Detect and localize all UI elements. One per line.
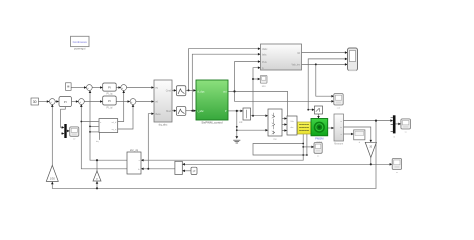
wire scope1 in2 from below <box>308 59 347 110</box>
converter bridge block <box>268 109 282 141</box>
wire dq out1 up to sum123 <box>118 91 124 121</box>
svg-text:Vabc: Vabc <box>262 48 268 51</box>
manual switch S2 <box>315 106 323 114</box>
wire S2 down into motor <box>318 114 320 118</box>
subsystem control measurements gray <box>261 44 302 70</box>
scope1 tall <box>348 48 358 71</box>
sum circle row1 b <box>121 85 127 91</box>
wire branch filter1 up to ctrlmeas in1 <box>189 49 260 91</box>
svg-text:30: 30 <box>33 100 37 104</box>
gain triangle 2 down <box>365 142 376 157</box>
wire branch down to scope2 in1 <box>316 64 333 96</box>
wire L2 right segment B5 to abcdq <box>142 168 175 170</box>
wire row1 PI1 to sum2 <box>116 87 120 89</box>
svg-text:d_dpc: d_dpc <box>198 89 206 93</box>
wire converter out to meas3 c <box>282 130 286 132</box>
gain triangle 3 up small <box>93 171 101 181</box>
sum circle row1 a <box>86 85 92 91</box>
wire dc branch to converter in3 <box>237 129 267 131</box>
small subsystem B5 <box>175 161 182 174</box>
wire row2 sum81 to B3 <box>84 101 102 103</box>
wire S1 out to converter in1 <box>251 115 268 117</box>
sum circle row2 b <box>79 99 85 105</box>
svg-text:Puls: Puls <box>262 61 267 64</box>
svg-text:PI_id: PI_id <box>106 105 112 109</box>
dq transform block left <box>96 119 118 144</box>
wire dq out2 up to sum133 <box>118 105 133 129</box>
svg-text:SixPWM_control: SixPWM_control <box>201 121 223 125</box>
svg-text:P: P <box>225 109 227 113</box>
wire gain3 stub bottom <box>96 182 98 189</box>
svg-text:abc_dq: abc_dq <box>130 149 139 152</box>
svg-text:pff: pff <box>193 170 196 173</box>
scope3 <box>314 143 322 158</box>
svg-text:+: + <box>131 100 133 104</box>
svg-text:PI: PI <box>108 99 111 103</box>
wire R1 to B5 <box>183 170 191 172</box>
wire dq bottom stub <box>99 133 101 140</box>
wire L1 left segment up to sum89 <box>90 91 127 160</box>
wire dc rect loop <box>253 144 307 156</box>
wire motor out to meas2 <box>328 127 334 129</box>
wire L3 speed line to scope4 <box>183 163 391 165</box>
wire dq in3 stub <box>90 131 98 133</box>
wire green out1 branch down to scope2 in2 <box>235 91 334 101</box>
wire dq in2 stub <box>90 125 98 127</box>
wire green out1 branch up to ctrlmeas in3 <box>235 62 260 92</box>
svg-text:PMSM: PMSM <box>315 136 324 140</box>
wire iTurk out2 to filter2 <box>172 110 176 112</box>
svg-text:1/30: 1/30 <box>50 177 56 181</box>
svg-text:Measure: Measure <box>334 142 344 145</box>
wire mux left feed <box>61 107 66 128</box>
scope5 <box>401 119 411 133</box>
wire vertical x253 from ctrlmeas in4 down <box>253 68 260 116</box>
display block D1 <box>354 130 365 144</box>
filter block 1 <box>176 86 185 96</box>
wire green out2 to S1 <box>228 110 242 112</box>
wire gain1 out up to sum52 <box>51 105 53 165</box>
junction dots <box>188 89 190 91</box>
wire bottom feedback line L4 <box>52 187 376 189</box>
sum circle row2 a <box>49 99 55 105</box>
wire row2 B3 to sum133 <box>116 101 129 103</box>
svg-text:Iabc: Iabc <box>262 53 267 56</box>
svg-text:+: + <box>87 86 89 90</box>
wire branch filter2 up to ctrlmeas in2 <box>192 54 259 110</box>
PMSM motor block green <box>311 119 328 144</box>
svg-text:powergui: powergui <box>74 47 86 51</box>
svg-text:PI_iq: PI_iq <box>106 92 112 96</box>
wire row1 sum2 to iTurk in1 <box>127 87 154 89</box>
wire stub to switch S2 <box>308 109 314 111</box>
svg-text:+: + <box>122 86 124 90</box>
arrowhead down (dc branch) <box>235 136 238 139</box>
svg-text:PI: PI <box>108 86 111 90</box>
svg-text:Vab_inv: Vab_inv <box>292 64 301 67</box>
wire dq in1 stub <box>81 121 98 123</box>
bus bar left mux <box>64 124 66 138</box>
wire mux left feed2 <box>62 133 64 135</box>
svg-text:m: m <box>393 137 395 139</box>
wire converter out to meas3 a <box>282 118 286 120</box>
subsystem iTurk <box>154 80 172 126</box>
small rounded block R1 <box>191 167 197 174</box>
wire L2 theta tap to iTurk in3 <box>148 114 153 169</box>
wire bus bar to scope5 <box>396 123 401 125</box>
wire gain1 stub bottom <box>51 182 53 188</box>
wire row2 sum to PI2 <box>55 101 58 103</box>
wire stub to scope3 <box>303 146 313 148</box>
wire ctrlmeas out2 to scope1 in3 <box>302 63 347 65</box>
wire row1 const to sum <box>71 87 86 89</box>
powergui block <box>71 36 90 50</box>
wire meas2 out3 to display D1 <box>344 133 353 135</box>
wire yellow bottom x303 down to L1 <box>302 134 304 160</box>
svg-text:i_abc: i_abc <box>197 109 204 113</box>
PI controller block row2 speed <box>59 97 72 107</box>
sum circle row2 c <box>130 99 136 105</box>
PI controller block row1 <box>103 83 117 96</box>
scope T1 small <box>260 75 267 88</box>
wire speed down right <box>375 121 377 189</box>
ground symbol dc minus <box>234 140 240 143</box>
wire ctrlmeas out1 to scope1 in1 <box>302 52 347 54</box>
small subsystem S1 <box>243 108 251 120</box>
constant block iq ref <box>66 83 72 91</box>
wire row2 PI2 to sum81 <box>72 101 78 103</box>
svg-text:out: out <box>223 89 227 93</box>
wire mux to scope6 <box>67 130 69 132</box>
svg-text:vd_d: vd_d <box>111 122 117 124</box>
wire row2 const30 to sum <box>39 101 49 103</box>
svg-text:+: + <box>50 100 52 104</box>
wire stub to scope T1 <box>253 78 260 80</box>
svg-text:dq_abc: dq_abc <box>159 122 168 126</box>
gain triangle 1 up (1/30) <box>46 165 58 181</box>
three phase VI measurement block <box>287 116 297 135</box>
constant block 30 <box>31 98 39 105</box>
wire meas2 out2 to gain2 <box>344 127 371 142</box>
wire row1 sum to PI1 <box>92 87 102 89</box>
svg-text:Cmd: Cmd <box>166 90 172 93</box>
svg-text:theta: theta <box>155 113 161 116</box>
scope4 <box>392 158 401 173</box>
abc to dq block <box>127 149 141 174</box>
machine measurement demux block <box>334 114 344 145</box>
wire meas2 out1 to bus bar <box>344 120 393 122</box>
wire iTurk out1 to filter1 <box>172 89 176 91</box>
wire row2 sum133 to iTurk in2 <box>136 101 153 103</box>
PI controller block row2 current <box>103 96 117 109</box>
svg-text:Mod: Mod <box>166 110 171 113</box>
wire gain3 out up to L1 <box>96 160 98 171</box>
wire green out1 right <box>228 91 288 115</box>
scope2 <box>334 94 343 106</box>
scope6 <box>70 127 79 140</box>
svg-text:sco: sco <box>262 85 266 88</box>
wire L1 right segment <box>142 159 303 161</box>
wire yellow bottom x307 down to rect <box>306 134 308 155</box>
bus bar right mux <box>391 115 396 138</box>
wire converter out to meas3 b <box>282 124 286 126</box>
wire filter2 to green in2 <box>186 110 195 112</box>
svg-text:+: + <box>79 100 81 104</box>
yellow measurement block <box>298 122 312 134</box>
svg-text:PI: PI <box>64 100 67 104</box>
arrowheads right-pointing <box>84 86 87 89</box>
wire L2 left segment up to sum81 <box>81 105 127 169</box>
arrowheads up-pointing (into sum bottoms) <box>51 104 54 107</box>
filter block 2 <box>176 107 185 116</box>
subsystem SixPWM_control green <box>196 80 228 125</box>
svg-text:vq_q: vq_q <box>111 129 117 131</box>
wire dc branch down <box>236 111 238 137</box>
wire filter1 to green in1 <box>186 89 195 91</box>
svg-text:Continuous: Continuous <box>73 40 88 44</box>
wire gain2 out stub <box>370 158 372 165</box>
arrowheads left-pointing (into right-side ports) <box>141 159 144 162</box>
